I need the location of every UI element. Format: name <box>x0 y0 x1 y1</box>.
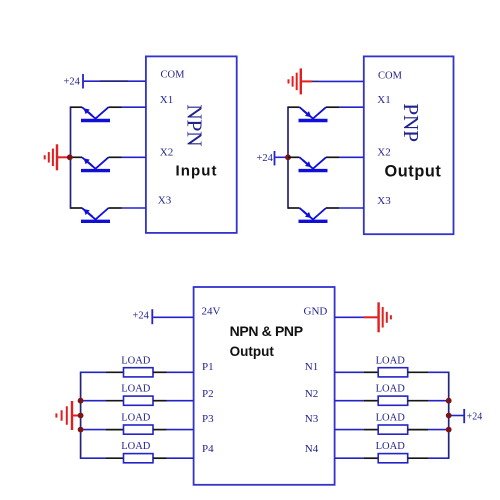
wire +24 to U3 24V pin <box>153 316 194 318</box>
svg-text:LOAD: LOAD <box>121 384 151 395</box>
svg-text:LOAD: LOAD <box>121 355 151 366</box>
wire Q3 collector to U1 X3 <box>122 207 146 209</box>
wire Q5 to U2 X2 <box>339 156 364 158</box>
svg-text:X3: X3 <box>377 195 391 207</box>
wire load R1 left lead <box>106 371 124 373</box>
resistor R2 LOAD <box>124 396 154 405</box>
ground G3 (left load bus) <box>56 401 72 430</box>
wire bus P to load R3 <box>80 429 106 431</box>
supply tick +24 (PNP) <box>274 151 276 165</box>
node bus P (left load bus) <box>80 372 82 460</box>
wire R2 to U3 P2 pin <box>167 400 194 402</box>
svg-text:COM: COM <box>161 70 186 81</box>
junction node D3 (bus N row3) <box>446 427 452 433</box>
resistor R1 LOAD <box>124 368 154 377</box>
transistor Q3 (NPN sensor 3) <box>71 208 122 221</box>
wire R6 to bus N <box>428 400 449 402</box>
wire G2 to U2 COM (red seg) <box>301 80 312 82</box>
wire R1 to U3 P1 pin <box>167 371 194 373</box>
wire U3 N4 pin to load R8 <box>335 457 364 459</box>
wire G4 red segment <box>364 316 379 318</box>
wire load R6 left lead <box>364 400 379 402</box>
junction node A (bus/ground) <box>67 154 73 160</box>
svg-text:LOAD: LOAD <box>376 413 406 424</box>
svg-text:GND: GND <box>304 305 328 317</box>
transistor Q1 (NPN sensor 1) <box>71 107 122 120</box>
wire R3 to U3 P3 pin <box>167 429 194 431</box>
resistor R5 LOAD <box>378 368 408 377</box>
wire load R3 right lead <box>153 429 167 431</box>
svg-text:N3: N3 <box>305 413 319 425</box>
svg-text:X2: X2 <box>377 146 390 158</box>
wire load R3 left lead <box>106 429 124 431</box>
transistor Q5 (PNP load 2) <box>288 157 339 170</box>
svg-text:X2: X2 <box>160 147 173 159</box>
junction node B (bus/+24) <box>285 154 291 160</box>
svg-text:NPN: NPN <box>182 104 206 147</box>
wire load R4 right lead <box>153 457 167 459</box>
wire bus P to load R2 <box>80 400 106 402</box>
resistor R7 LOAD <box>378 425 408 434</box>
svg-text:+24: +24 <box>257 153 274 164</box>
ground G2 (PNP COM) <box>289 68 301 94</box>
wire load R4 left lead <box>106 457 124 459</box>
svg-text:N2: N2 <box>305 388 318 400</box>
wire U3 N1 pin to load R5 <box>335 371 364 373</box>
wire load R7 left lead <box>364 429 379 431</box>
svg-text:+24: +24 <box>133 310 150 321</box>
node bus N (right load bus) <box>448 372 450 460</box>
transistor Q2 (NPN sensor 2) <box>71 157 122 170</box>
wire load R8 right lead <box>408 457 428 459</box>
wire R4 to U3 P4 pin <box>167 457 194 459</box>
wire Q4 to U2 X1 <box>339 106 364 108</box>
wire U3 N2 pin to load R6 <box>335 400 364 402</box>
wire load R1 right lead <box>153 371 167 373</box>
svg-text:LOAD: LOAD <box>121 413 151 424</box>
resistor R3 LOAD <box>124 425 154 434</box>
svg-text:Output: Output <box>385 163 442 181</box>
wire bus P to load R1 <box>81 371 106 373</box>
transistor Q4 (PNP load 1) <box>288 107 339 120</box>
wire load R6 right lead <box>408 400 428 402</box>
svg-text:P1: P1 <box>202 361 214 373</box>
svg-text:Output: Output <box>230 344 275 359</box>
resistor R4 LOAD <box>124 454 154 463</box>
wire U3 GND pin to G4 <box>335 316 364 318</box>
wire R5 to bus N <box>428 371 449 373</box>
svg-text:X1: X1 <box>377 94 390 106</box>
wire Q1 collector to U1 X1 <box>122 106 146 108</box>
svg-text:24V: 24V <box>202 305 221 317</box>
svg-text:P2: P2 <box>202 388 214 400</box>
supply tick +24 (U3) <box>151 309 153 324</box>
junction node C2 (bus P ground) <box>78 413 84 419</box>
wire R8 to bus N <box>428 457 449 459</box>
svg-text:P3: P3 <box>202 413 214 425</box>
node bus left (NPN emitter bus) <box>70 106 72 208</box>
resistor R6 LOAD <box>378 396 408 405</box>
wire load R8 left lead <box>364 457 379 459</box>
junction node C3 (bus P row3) <box>78 427 84 433</box>
supply tick +24 (bus N) <box>463 409 465 423</box>
wire load R5 left lead <box>364 371 379 373</box>
wire load R2 right lead <box>153 400 167 402</box>
svg-text:LOAD: LOAD <box>376 441 406 452</box>
IC box U2 PNP Output <box>364 56 454 234</box>
wire G2 to U2 COM (dark seg) <box>312 80 319 82</box>
svg-text:LOAD: LOAD <box>376 384 406 395</box>
svg-text:NPN & PNP: NPN & PNP <box>230 323 303 339</box>
wire +24 to PNP bus <box>275 156 288 158</box>
svg-text:X3: X3 <box>158 195 172 207</box>
junction node C1 (bus P row2) <box>78 398 84 404</box>
wire G1 to bus <box>57 156 71 158</box>
wire Q6 to U2 X3 <box>339 207 364 209</box>
svg-text:COM: COM <box>378 70 403 81</box>
svg-text:N1: N1 <box>305 361 318 373</box>
transistor Q6 (PNP load 3) <box>288 208 339 221</box>
IC box U1 NPN Input <box>146 56 237 233</box>
svg-text:P4: P4 <box>202 443 214 455</box>
node bus right (PNP emitter bus) <box>287 106 289 208</box>
svg-text:+24: +24 <box>467 412 483 423</box>
svg-text:N4: N4 <box>305 443 319 455</box>
wire G3 to bus P <box>72 415 81 417</box>
ground G1 (NPN bus) <box>45 144 57 170</box>
wire load R2 left lead <box>106 400 124 402</box>
svg-text:+24: +24 <box>64 77 81 88</box>
svg-text:LOAD: LOAD <box>121 441 151 452</box>
svg-text:PNP: PNP <box>399 103 423 142</box>
wire +24 to U1 COM pin dark middle <box>100 80 128 82</box>
resistor R8 LOAD <box>378 454 408 463</box>
wire load R5 right lead <box>408 371 428 373</box>
IC box U3 NPN & PNP Output <box>194 287 335 485</box>
supply tick +24 (NPN) <box>82 74 84 89</box>
wire bus P to load R4 <box>81 457 106 459</box>
svg-text:LOAD: LOAD <box>376 355 406 366</box>
wire load R7 right lead <box>408 429 428 431</box>
wire G2 to U2 COM <box>319 80 364 82</box>
junction node D2 (bus N +24) <box>446 413 452 419</box>
svg-text:Input: Input <box>176 163 218 180</box>
wire U3 N3 pin to load R7 <box>335 429 364 431</box>
wire R7 to bus N <box>428 429 449 431</box>
svg-text:X1: X1 <box>160 94 173 106</box>
wire bus N to +24 tick <box>449 415 464 417</box>
junction node D1 (bus N row2) <box>446 398 452 404</box>
wire Q2 collector to U1 X2 <box>122 156 146 158</box>
wire +24 to U1 COM pin <box>84 80 146 82</box>
ground G4 (U3 GND) <box>379 302 391 332</box>
